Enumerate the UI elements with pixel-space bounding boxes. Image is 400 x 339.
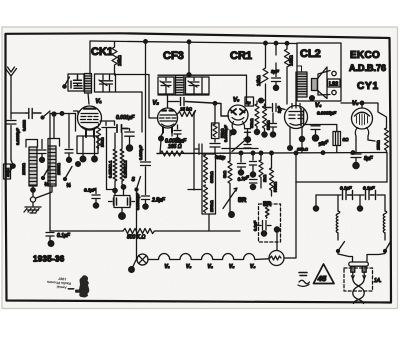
- heater chain wire: [136, 259, 139, 261]
- svg-text:2μF: 2μF: [277, 105, 282, 113]
- capacitor C26: [366, 191, 376, 200]
- svg-text:V₅: V₅: [229, 264, 234, 270]
- capacitor C14: [244, 130, 251, 148]
- svg-text:CK1: CK1: [91, 46, 113, 58]
- node: [288, 146, 293, 151]
- node: [251, 151, 255, 155]
- wire (V4 anode to transformer): [295, 97, 297, 106]
- capacitor C20: [92, 188, 100, 208]
- node (grid junction): [60, 112, 64, 116]
- node: [351, 151, 355, 155]
- svg-text:0.1μF: 0.1μF: [84, 188, 96, 193]
- potentiometer arrow (tone): [232, 139, 247, 152]
- anode bracket: [100, 121, 115, 125]
- resistor R1 15k: [112, 42, 122, 75]
- svg-text:V₁: V₁: [96, 99, 102, 105]
- capacitor C19: [65, 114, 73, 163]
- dashed enclosure (mains dropper): [259, 204, 281, 242]
- node: [144, 40, 148, 44]
- svg-text:15 kΩ: 15 kΩ: [180, 107, 193, 112]
- node on bus: [187, 40, 191, 44]
- IFT wire: [158, 75, 247, 104]
- capacitor C7 3uF: [271, 43, 281, 90]
- capacitor C18: [38, 140, 46, 163]
- svg-text:CF3: CF3: [163, 50, 184, 62]
- resistor R11: [259, 153, 267, 189]
- wire (speaker leads): [318, 71, 330, 96]
- coil L2 (IF): [176, 75, 185, 95]
- main HT rail: [157, 153, 387, 154]
- node on bus: [264, 41, 268, 45]
- loudspeaker LS2: [312, 67, 328, 99]
- mains AC symbol: [298, 273, 310, 287]
- wire (detector out): [222, 148, 258, 150]
- wire (coil top brackets): [26, 114, 60, 147]
- wire (left drop to coil): [337, 195, 339, 211]
- mains plug bar: [349, 262, 369, 266]
- capacitor C6 (IF trim): [186, 77, 210, 94]
- wire (grid lead V1): [62, 113, 76, 115]
- wire (V2 legs): [163, 127, 172, 133]
- node: [357, 206, 362, 211]
- collector stamp: [47, 276, 72, 290]
- svg-text:500 K.Ω: 500 K.Ω: [127, 235, 145, 241]
- wire (bus to CK1 coil): [89, 42, 91, 75]
- resistor R19: [108, 133, 117, 188]
- wire (osc coupling A): [116, 75, 158, 119]
- svg-text:0.001μF: 0.001μF: [116, 115, 135, 121]
- svg-text:2.5μF: 2.5μF: [151, 198, 166, 204]
- output transformer T1: [296, 66, 307, 97]
- svg-text:0.1μF: 0.1μF: [253, 220, 258, 231]
- svg-text:8μF: 8μF: [364, 156, 374, 162]
- capacitor C1 (aerial series): [6, 113, 20, 160]
- svg-text:V₅: V₅: [352, 101, 359, 107]
- resistor R9: [249, 101, 260, 135]
- tube V5: [352, 108, 373, 140]
- tube V3: [228, 105, 248, 129]
- switch S5: [132, 177, 141, 192]
- svg-text:1987: 1987: [58, 276, 66, 281]
- terminal (earth): [30, 197, 35, 202]
- capacitor C22 0.1uF: [46, 228, 71, 246]
- node: [239, 151, 243, 155]
- svg-text:45: 45: [317, 274, 327, 283]
- resistor R8 (boxed): [212, 103, 225, 138]
- mains cord (twisted): [351, 272, 365, 304]
- svg-text:V₃: V₃: [186, 264, 191, 270]
- resistor R5 20k: [97, 124, 105, 149]
- CL2 output box: [297, 43, 341, 101]
- svg-text:16kΩ: 16kΩ: [289, 55, 294, 66]
- ground: [24, 202, 41, 213]
- svg-text:A.D.B.76: A.D.B.76: [349, 63, 386, 73]
- resistor R3: [285, 43, 294, 104]
- capacitor C13 (coupling to V4): [265, 104, 285, 114]
- capacitor C10: [174, 125, 181, 142]
- svg-text:2kΩ: 2kΩ: [262, 175, 267, 182]
- svg-text:5R: 5R: [238, 197, 247, 204]
- svg-text:V₄: V₄: [315, 103, 322, 109]
- capacitor C2: [23, 109, 42, 132]
- wire (to heater lamp): [136, 190, 138, 260]
- capacitor C8: [117, 125, 128, 133]
- screen resistor box (two-section): [202, 154, 216, 214]
- capacitor C15: [238, 153, 246, 176]
- resistor R16 500k: [123, 229, 240, 241]
- svg-text:0.0005μF: 0.0005μF: [15, 127, 20, 145]
- wire (osc coupling B): [116, 92, 143, 132]
- tube V1: [74, 106, 102, 131]
- svg-text:1A.: 1A.: [374, 278, 382, 284]
- wire (V1 anode right): [102, 127, 116, 129]
- node: [129, 267, 135, 273]
- svg-text:V₄: V₄: [250, 264, 255, 270]
- svg-text:8Ω: 8Ω: [343, 137, 350, 142]
- node on bus: [274, 41, 278, 45]
- wire (V5 right leg): [368, 140, 375, 141]
- wire (bus drop to IFT1): [188, 42, 190, 75]
- wire (legs below): [83, 154, 95, 157]
- resistor R15 (aerial shunt): [4, 160, 16, 179]
- node: [231, 129, 236, 134]
- node: [270, 151, 274, 155]
- switch S6 (mains): [337, 233, 345, 253]
- wire (V5 to right column): [362, 103, 387, 122]
- terminal (speaker top): [332, 71, 336, 75]
- svg-text:0.008μF: 0.008μF: [138, 145, 143, 160]
- CK1 trimmer box (right): [95, 74, 116, 92]
- capacitor C17: [253, 220, 280, 250]
- wire (box to bottom rail): [208, 214, 210, 231]
- wire (coupling drop): [145, 42, 147, 161]
- node: [321, 151, 325, 155]
- svg-text:V₂: V₂: [153, 101, 160, 107]
- anode coupling wire: [168, 101, 180, 103]
- wire (right column down): [386, 153, 388, 183]
- dashed box (plug): [344, 268, 373, 291]
- coil box LF choke A: [21, 147, 37, 186]
- svg-text:0.1μF: 0.1μF: [57, 233, 71, 239]
- resistor R13: [270, 153, 278, 197]
- node: [259, 151, 263, 155]
- bottom bias rail: [50, 230, 123, 232]
- node: [31, 188, 35, 192]
- wire: [133, 260, 137, 268]
- wire (V4 legs): [290, 125, 304, 147]
- node: [294, 151, 298, 155]
- resistor R4 (cathode box): [77, 136, 98, 154]
- resistor R14: [266, 207, 270, 218]
- svg-text:800kΩ: 800kΩ: [209, 171, 214, 183]
- barretter: [269, 251, 284, 266]
- capacitor C14b: [245, 129, 251, 137]
- svg-text:EKCO: EKCO: [350, 50, 380, 61]
- wire (HT rail to mains): [295, 153, 297, 182]
- wire (screen drop): [188, 113, 202, 191]
- capacitor C23 25uF: [311, 125, 329, 148]
- capacitor C28: [141, 162, 151, 188]
- svg-text:0.1μ: 0.1μ: [217, 155, 226, 160]
- mains top wire: [296, 181, 387, 183]
- svg-text:16kΩ: 16kΩ: [256, 75, 261, 86]
- heater humps: [148, 254, 269, 260]
- plug pins: [351, 266, 366, 272]
- wire (V1 legs): [86, 130, 94, 138]
- node: [313, 206, 318, 211]
- capacitor C12: [195, 144, 202, 155]
- CK1 tuned circuit box (left): [68, 74, 84, 91]
- tube V2: [158, 94, 178, 128]
- svg-text:LS2: LS2: [329, 82, 338, 88]
- resistor R6 15k: [178, 107, 196, 117]
- resistor R12 (volume pot): [222, 161, 232, 213]
- wire (coil to V1): [88, 93, 89, 104]
- resistor R10: [259, 98, 271, 137]
- node: [80, 156, 86, 162]
- svg-text:0.1μF: 0.1μF: [363, 186, 375, 191]
- resistor R2 (detector load): [256, 43, 271, 107]
- capacitor C25: [343, 191, 353, 200]
- svg-text:V₃: V₃: [233, 98, 240, 104]
- node: [360, 101, 364, 105]
- wire (down to wave switch): [49, 113, 51, 228]
- svg-text:20kΩ: 20kΩ: [100, 138, 105, 147]
- coil L3 (mains choke): [336, 211, 340, 233]
- wire (stub to node): [316, 195, 360, 206]
- svg-text:150Ω: 150Ω: [376, 140, 381, 150]
- antenna A1: [6, 67, 17, 113]
- wire (V5 anode hook): [341, 103, 362, 108]
- triangle mark 45: [314, 264, 335, 284]
- svg-text:⅓: ⅓: [67, 183, 71, 189]
- switch S4: [64, 167, 73, 190]
- svg-text:0.25MΩ.2: 0.25MΩ.2: [123, 160, 128, 178]
- top bus wire: [90, 41, 297, 44]
- svg-text:R5kΩ: R5kΩ: [273, 182, 278, 192]
- svg-text:250kΩ: 250kΩ: [209, 200, 214, 212]
- tube V4: [285, 103, 308, 129]
- switch S2 (band): [63, 77, 70, 88]
- capacitor C16: [250, 153, 258, 190]
- pilot lamp: [137, 254, 148, 265]
- pot arrow: [223, 188, 237, 209]
- node: [229, 212, 235, 218]
- coil L4 (mains choke): [383, 195, 387, 233]
- capacitor C5 (IFT1 trim): [158, 77, 174, 94]
- capacitor C24 8uF: [351, 140, 374, 169]
- svg-text:0.0001μF: 0.0001μF: [223, 124, 228, 142]
- wire (AVC drop): [230, 130, 234, 161]
- capacitor C27: [181, 98, 229, 117]
- svg-text:V₁: V₁: [165, 264, 170, 270]
- node: [76, 162, 81, 167]
- stamp figure: [68, 275, 90, 297]
- node: [159, 136, 164, 141]
- svg-text:15kΩ: 15kΩ: [117, 55, 122, 66]
- resistor R18 (smoothing): [376, 122, 389, 153]
- svg-text:0.25MΩ.1: 0.25MΩ.1: [108, 160, 113, 178]
- terminal (speaker bottom): [332, 90, 336, 94]
- wire (AVC drop left): [107, 129, 114, 190]
- svg-text:CL2: CL2: [300, 48, 321, 60]
- coil L1 (osc): [85, 74, 92, 94]
- resistor R7 165: [157, 151, 195, 156]
- svg-text:350.Ω: 350.Ω: [297, 147, 308, 152]
- svg-text:0.1μF: 0.1μF: [340, 186, 352, 191]
- capacitor C21 2.5uF: [142, 188, 166, 209]
- node: [245, 137, 250, 142]
- capacitor C11: [210, 139, 220, 154]
- resistor R20: [120, 133, 127, 186]
- resistor R17 (boxed 8ohm): [304, 125, 349, 153]
- wire (to plug): [338, 251, 385, 262]
- svg-text:0.0005μF: 0.0005μF: [317, 111, 336, 116]
- svg-text:1000Ω: 1000Ω: [21, 163, 26, 175]
- coil box LF choke B: [48, 146, 61, 186]
- switch S7 (mains): [384, 233, 391, 253]
- switch S3: [42, 166, 51, 189]
- node: [52, 112, 56, 116]
- svg-text:3kΩ: 3kΩ: [222, 171, 227, 178]
- dual capacitor block: [109, 185, 141, 220]
- node: [213, 102, 217, 106]
- svg-text:V₂: V₂: [208, 264, 213, 270]
- svg-text:0.0003: 0.0003: [23, 120, 27, 131]
- svg-text:1000Ω: 1000Ω: [56, 163, 61, 175]
- svg-text:0.0001μF: 0.0001μF: [135, 192, 140, 210]
- node (speaker): [310, 96, 315, 101]
- switch S1: [41, 111, 62, 119]
- wire (to ground): [33, 186, 52, 198]
- capacitor C13b: [270, 113, 277, 137]
- mains filter wire: [316, 194, 385, 196]
- schematic border frame: [6, 33, 392, 302]
- node: [299, 136, 304, 141]
- svg-text:CR1: CR1: [230, 50, 252, 62]
- svg-text:50kΩ: 50kΩ: [249, 119, 254, 128]
- node: [92, 156, 98, 162]
- wire (aerial to grid): [11, 112, 26, 114]
- label LS2: [328, 79, 341, 88]
- svg-text:1935-36: 1935-36: [33, 255, 65, 264]
- svg-text:165 Ω: 165 Ω: [168, 144, 182, 150]
- svg-text:80kΩ: 80kΩ: [266, 121, 271, 130]
- capacitor C9 electrolytic: [125, 129, 134, 152]
- node: [187, 73, 191, 77]
- svg-text:3μF: 3μF: [271, 69, 279, 74]
- wire (barretter to mains): [284, 182, 296, 258]
- svg-text:CY1: CY1: [357, 81, 379, 92]
- small box (V3 bias): [245, 97, 254, 106]
- node on bus: [285, 42, 289, 46]
